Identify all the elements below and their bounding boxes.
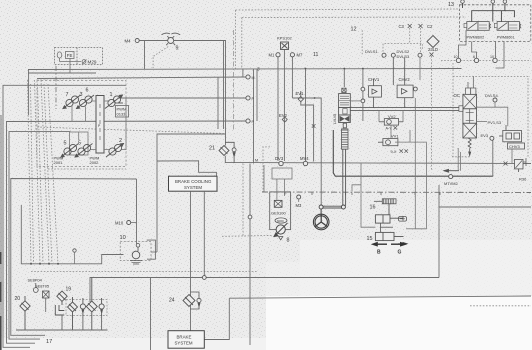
wire M7 to steering pilot xyxy=(292,98,321,206)
svg-text:EV3: EV3 xyxy=(481,133,489,138)
wire pilot solid drop x28.6 xyxy=(28,70,30,116)
junction dots tank header xyxy=(30,263,59,265)
svg-text:0133: 0133 xyxy=(117,112,127,117)
wire enclosure rect2 xyxy=(7,121,247,343)
SE8P04 sensor xyxy=(33,283,38,292)
svg-text:B: B xyxy=(377,250,381,256)
filter f3 xyxy=(86,278,97,331)
solenoid valve PWM8602 xyxy=(464,22,491,31)
wire dotted right box left xyxy=(452,63,454,157)
svg-text:MV4: MV4 xyxy=(300,156,309,161)
item8 oval plate xyxy=(275,218,287,223)
svg-text:M29: M29 xyxy=(88,60,97,65)
mid port circle xyxy=(361,99,365,103)
dashed enclosure around pump valves xyxy=(37,81,126,167)
item8 top feeds xyxy=(264,165,284,200)
C3 plug X xyxy=(408,24,412,28)
svg-text:17: 17 xyxy=(46,339,52,345)
svg-text:OC: OC xyxy=(454,93,461,98)
svg-text:SYSTEM: SYSTEM xyxy=(184,185,202,190)
valve 5a xyxy=(61,144,79,158)
svg-text:5: 5 xyxy=(64,141,67,147)
wire dashed vert x=235.5 xyxy=(235,10,237,69)
CHV1 check valve xyxy=(369,79,382,108)
arrows under 15 xyxy=(372,243,405,246)
wire pilot dotted pair4a xyxy=(48,84,58,264)
wire y=207 right xyxy=(439,206,531,208)
port 6 circle xyxy=(474,58,478,62)
port 10a circle xyxy=(456,58,460,62)
box13 outlet drops xyxy=(459,30,505,68)
vent circle xyxy=(73,249,76,252)
C2 plug X xyxy=(419,24,423,28)
junction circle xyxy=(202,276,206,280)
left edge dark marks xyxy=(0,252,2,350)
svg-text:M: M xyxy=(255,159,258,163)
wire brake cooling down1 xyxy=(190,191,192,331)
CHV3 label box xyxy=(508,143,525,149)
svg-text:20: 20 xyxy=(15,296,21,302)
svg-text:C2: C2 xyxy=(427,24,433,29)
wire big enclosure rect1 xyxy=(3,85,126,347)
valve 2 xyxy=(106,144,124,158)
vent stub xyxy=(74,252,76,264)
CHV2 check valve xyxy=(393,57,413,108)
wire pump top feed y=73 xyxy=(28,72,96,74)
svg-text:10: 10 xyxy=(490,55,494,59)
svg-text:FE: FE xyxy=(67,53,73,58)
svg-text:6: 6 xyxy=(473,55,475,59)
port 10b circle xyxy=(493,58,497,62)
wire dashed box top pilot1 xyxy=(236,9,460,10)
svg-text:10: 10 xyxy=(454,55,458,59)
svg-text:DV3: DV3 xyxy=(275,156,284,161)
svg-text:8: 8 xyxy=(287,238,290,244)
small motor feed xyxy=(151,237,157,252)
wire left edge line xyxy=(0,115,2,347)
wire port line y=98 xyxy=(118,97,246,99)
CHV3 valve body xyxy=(499,125,522,142)
CHV3 down link xyxy=(511,149,513,164)
svg-text:M10: M10 xyxy=(115,221,124,226)
junction dot steering pilot xyxy=(314,97,316,99)
svg-text:21: 21 xyxy=(209,146,215,152)
svg-text:19: 19 xyxy=(66,287,72,293)
wire CHV1 drop x=363 xyxy=(362,69,364,122)
port circle P3 xyxy=(246,119,250,123)
box 13 dashed xyxy=(459,5,530,42)
wire vertical x=439 xyxy=(438,185,440,278)
wire KPS M7 drop xyxy=(291,57,293,98)
svg-text:M7: M7 xyxy=(297,53,303,58)
filter f1 xyxy=(68,297,78,330)
box13 top rail xyxy=(463,3,515,21)
M10 link xyxy=(131,222,137,224)
svg-text:6000: 6000 xyxy=(277,219,284,223)
check 24 xyxy=(191,292,202,309)
wire enclosure rect4 xyxy=(11,179,137,336)
wire dashed box top pilot2 xyxy=(242,16,466,19)
svg-text:3: 3 xyxy=(257,67,260,72)
X-square stem xyxy=(45,298,47,312)
check valve 21 xyxy=(225,142,236,163)
steering column shaft xyxy=(343,149,346,206)
svg-text:PWM8602: PWM8602 xyxy=(467,35,485,39)
svg-text:PWM8601: PWM8601 xyxy=(497,35,515,39)
wire dashed corner x=263 xyxy=(263,147,270,192)
wire item10 feed xyxy=(21,205,123,264)
valve 5 box xyxy=(70,132,89,155)
DVLS1 port xyxy=(382,53,386,57)
filter 23LD xyxy=(427,36,439,48)
filter 21 xyxy=(219,146,229,156)
priority valve upper section xyxy=(339,94,351,108)
wire valve inlet drop xyxy=(343,69,345,88)
svg-text:13: 13 xyxy=(448,2,454,8)
priority valve top pilot box xyxy=(342,88,346,92)
svg-text:23LD: 23LD xyxy=(428,47,438,52)
right mid verticals xyxy=(395,98,426,229)
filter bank bottom collector xyxy=(16,315,108,330)
svg-text:R36: R36 xyxy=(519,177,527,182)
svg-text:11: 11 xyxy=(313,52,318,58)
OC valve spring xyxy=(468,138,471,155)
junction dots bus xyxy=(305,68,364,70)
DVLS3 drop xyxy=(419,57,421,80)
wire dotted right box bottom xyxy=(452,156,470,158)
svg-text:DVLS4: DVLS4 xyxy=(485,93,498,98)
wire main pressure bus y=69 xyxy=(28,69,462,70)
9-X plug X xyxy=(400,149,408,152)
wire right vertical x=218 xyxy=(217,77,219,129)
DVLS2 port xyxy=(391,53,395,57)
svg-text:7: 7 xyxy=(66,92,69,98)
svg-text:EV2: EV2 xyxy=(279,113,288,118)
svg-text:DVLS3: DVLS3 xyxy=(397,54,410,59)
svg-text:VV1: VV1 xyxy=(391,134,399,139)
svg-text:GE9100: GE9100 xyxy=(271,211,286,216)
wire MV4 drop xyxy=(305,69,307,162)
wire long line y=296 xyxy=(229,296,531,298)
svg-text:16: 16 xyxy=(370,205,376,211)
svg-text:M1: M1 xyxy=(269,53,275,58)
steering pivot right xyxy=(341,205,345,209)
wire item10 right bracket xyxy=(147,240,156,259)
wire dotted right box top xyxy=(453,76,528,157)
wire dashed vert x=431.5 xyxy=(431,56,433,171)
MV4 valve circle xyxy=(303,161,307,165)
feed line to cylinder 15 xyxy=(352,164,375,228)
BRAKE COOLING SYSTEM box xyxy=(169,176,218,191)
svg-text:12: 12 xyxy=(351,27,357,33)
small arrow right xyxy=(398,243,407,246)
svg-text:3: 3 xyxy=(80,92,83,98)
chassis dash-dot vert x=233.6 xyxy=(233,30,235,130)
DVLS4 port xyxy=(493,98,497,102)
wire enclosure rect3 xyxy=(9,132,70,340)
wire EV1 drop xyxy=(301,102,314,162)
wire dotted H 271.5 xyxy=(31,271,257,273)
OC valve top pilot boxes xyxy=(466,76,476,94)
relief valve right xyxy=(504,158,527,172)
wire dotted ports row xyxy=(441,60,531,62)
pump block body xyxy=(96,96,104,154)
filter 24 xyxy=(183,295,195,307)
item 10 check valve xyxy=(136,243,140,251)
port circle P1 xyxy=(246,75,250,79)
svg-text:PV1.S3: PV1.S3 xyxy=(488,120,502,125)
wire fan line y=40.5 xyxy=(139,41,225,146)
VV vertical links xyxy=(379,111,403,139)
svg-text:G: G xyxy=(398,250,402,256)
wire dashed to pump8 xyxy=(222,235,272,238)
item8 enclosure xyxy=(270,192,291,230)
steering pivot left xyxy=(319,205,323,209)
wire right vertical x=223.5 xyxy=(223,41,225,130)
svg-text:24: 24 xyxy=(169,298,175,304)
wire dashed dvls box xyxy=(383,44,422,59)
gauge M7 xyxy=(290,53,294,57)
M3 port xyxy=(297,195,301,199)
wire pilot dotted pair2b xyxy=(38,84,44,264)
wire dotted bottom right xyxy=(470,305,531,307)
wire dashed vert x=243 brake xyxy=(242,164,244,237)
filter 20 xyxy=(20,296,30,330)
wire aux drop x257 xyxy=(256,69,258,122)
wire pilot dotted pair3a xyxy=(41,80,49,264)
svg-text:VV2: VV2 xyxy=(388,114,396,119)
valve 5b xyxy=(75,144,93,158)
OC directional valve block xyxy=(459,94,477,138)
KPS102 pressure switch xyxy=(281,42,289,50)
wire bus to port M xyxy=(242,69,244,78)
priority valve mid section xyxy=(339,108,351,116)
svg-text:9-X: 9-X xyxy=(391,150,397,154)
valve 7 xyxy=(63,95,81,109)
svg-text:2001: 2001 xyxy=(54,160,64,165)
PWM 0133 box xyxy=(116,106,129,118)
wire brake system right link xyxy=(204,298,229,339)
svg-text:15: 15 xyxy=(367,236,373,242)
wire M10 vertical xyxy=(136,179,138,243)
svg-text:KPS102: KPS102 xyxy=(277,36,292,41)
valve 1 xyxy=(105,95,123,109)
M3 stem xyxy=(298,199,300,202)
PV1.S3 tick xyxy=(477,121,488,123)
DV3 body box xyxy=(272,168,292,179)
FE sensor dashed box xyxy=(55,48,103,74)
VV1 valve xyxy=(378,139,398,146)
pump 8 xyxy=(274,223,288,237)
small cooler box xyxy=(399,217,407,222)
svg-text:C3: C3 xyxy=(399,24,405,29)
port 11 block xyxy=(342,86,349,99)
svg-text:M3: M3 xyxy=(296,203,302,208)
wire vertical x=250 xyxy=(249,164,251,346)
item 10 pump motor xyxy=(130,251,142,264)
plug X on EV1 drop xyxy=(312,124,316,128)
left arrow line xyxy=(444,169,459,172)
wire pilot dotted pair1a xyxy=(28,80,32,264)
steering column coil xyxy=(342,129,349,149)
DV3 valve circle xyxy=(279,161,283,165)
EV2 valve xyxy=(282,117,287,122)
svg-text:LVLV8: LVLV8 xyxy=(333,114,337,124)
wire H line y=277 xyxy=(90,278,439,303)
steering bar xyxy=(320,206,345,208)
wire EV3 drop xyxy=(492,140,494,177)
svg-text:EV1: EV1 xyxy=(296,91,305,96)
chassis dash-dot line xyxy=(262,191,531,194)
wire steering feed pair A xyxy=(350,107,462,109)
wire dashed H6 xyxy=(37,127,225,134)
wire aux drop x253.5 xyxy=(253,69,255,164)
M29 sensor xyxy=(82,60,87,65)
svg-text:6: 6 xyxy=(86,88,89,94)
EV3 port xyxy=(490,136,494,140)
svg-text:2002: 2002 xyxy=(90,160,100,165)
23LD plug X xyxy=(430,53,434,57)
svg-text:CHV3: CHV3 xyxy=(509,144,520,149)
filter bank dashed box xyxy=(66,300,107,316)
CHV1 inlet port xyxy=(361,87,365,91)
wire port line y=77 xyxy=(37,77,246,79)
wire item12 dashed vert xyxy=(361,30,363,55)
wire tank bus y=162 to right xyxy=(225,156,531,164)
wire corner at 134 going left xyxy=(157,134,226,237)
MTVM2 port circle xyxy=(449,175,453,179)
junction circle x250 xyxy=(248,215,252,219)
svg-text:2: 2 xyxy=(119,138,122,144)
svg-text:SYSTEM: SYSTEM xyxy=(175,341,193,346)
pump 8 strainer xyxy=(279,237,283,240)
chassis dash-dot vert x=56 xyxy=(55,66,57,109)
valve 3 xyxy=(77,95,95,109)
cylinder 15 xyxy=(375,223,403,241)
M4 gauge xyxy=(135,39,139,43)
spring unit 16 xyxy=(374,199,396,204)
svg-text:BRAKE COOLING: BRAKE COOLING xyxy=(175,179,212,184)
wire KPS center drop xyxy=(283,49,285,161)
box13 top ports xyxy=(461,0,507,3)
A-Y plug X xyxy=(394,126,398,130)
BRAKE SYSTEM box xyxy=(168,331,204,349)
filter 19 xyxy=(57,291,67,301)
chassis tick marks xyxy=(285,192,440,195)
svg-text:SE8P04: SE8P04 xyxy=(28,278,43,283)
DVLS4 link xyxy=(495,102,508,126)
svg-text:M: M xyxy=(252,76,255,80)
svg-text:1: 1 xyxy=(110,92,113,98)
svg-text:DVLS1: DVLS1 xyxy=(365,49,378,54)
wire dotted under pumps xyxy=(48,168,126,170)
mid link line xyxy=(350,100,361,102)
valve bottom connector xyxy=(343,123,346,128)
valve drop stubs xyxy=(72,107,86,122)
manifold pipe xyxy=(55,302,64,316)
gauge M1 xyxy=(276,53,280,57)
wire fan pilot diagonal xyxy=(153,47,168,68)
check f2 xyxy=(80,298,85,316)
svg-text:5: 5 xyxy=(78,141,81,147)
wire brake cooling down2 xyxy=(203,191,205,277)
VV2 valve xyxy=(379,119,403,126)
wire dashed C2 drop xyxy=(420,28,422,52)
svg-text:10: 10 xyxy=(120,235,126,241)
DVLS3 port xyxy=(418,53,422,57)
check f4 xyxy=(99,298,104,316)
item8 sensor square xyxy=(274,200,282,207)
wire dashed top pilot y=78 xyxy=(37,78,150,79)
SE8T05 sensor square xyxy=(43,291,50,298)
wire pilot dotted pair1b xyxy=(31,84,34,264)
wire fan branch down to bus xyxy=(144,41,146,70)
svg-text:9: 9 xyxy=(176,46,179,52)
M10 gauge xyxy=(127,221,131,225)
pump valve connector stubs xyxy=(91,98,127,150)
svg-text:MTVM2: MTVM2 xyxy=(444,181,458,186)
svg-text:BRAKE: BRAKE xyxy=(177,335,192,340)
steering wheel xyxy=(313,209,329,230)
wire pilot dotted pair3b xyxy=(44,84,52,264)
wire dashed C3 drop xyxy=(409,28,411,44)
wire steering feed pair B xyxy=(350,110,462,112)
OC drain verticals xyxy=(458,148,460,171)
svg-text:M4: M4 xyxy=(125,39,132,44)
wire brake cooling feed xyxy=(157,161,216,176)
item 10 dashed box xyxy=(120,242,151,261)
CHV2 port xyxy=(414,87,418,91)
fan motor 9 xyxy=(162,33,181,45)
priority valve bowtie section xyxy=(339,115,351,123)
wire dashed vert x=241.8 xyxy=(241,18,243,69)
port circle P2 xyxy=(246,96,250,100)
wire KPS M1 drop xyxy=(277,57,279,161)
wire vertical x=150.5 xyxy=(150,278,152,350)
EV1 valve xyxy=(298,91,303,102)
wire pilot dotted pair2a xyxy=(35,80,41,264)
cylinder 16 xyxy=(375,204,403,223)
solenoid valve PWM8601 xyxy=(494,22,521,31)
